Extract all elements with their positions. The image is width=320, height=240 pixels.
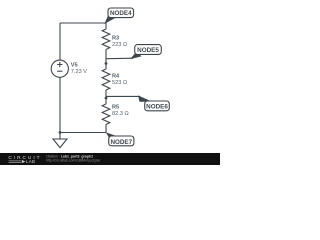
wire left rail lower: [59, 77, 61, 132]
svg-text:7.23 V: 7.23 V: [71, 69, 87, 75]
svg-text:523 Ω: 523 Ω: [112, 80, 127, 86]
CircuitLab logo: [8, 155, 41, 164]
junction node between R3 and R4: [105, 62, 108, 65]
resistor R3: [102, 29, 110, 50]
ground: [53, 133, 67, 148]
wire left rail upper: [59, 23, 61, 60]
svg-text:NODE6: NODE6: [146, 104, 168, 111]
voltage source V5: [51, 60, 68, 77]
node flag NODE7: [106, 132, 134, 146]
svg-text:223 Ω: 223 Ω: [112, 42, 127, 48]
svg-text:82.3 Ω: 82.3 Ω: [112, 111, 129, 117]
svg-text:R5: R5: [112, 105, 119, 111]
node flag NODE5: [106, 45, 161, 60]
svg-text:R3: R3: [112, 36, 119, 42]
wire resistor column: [105, 23, 107, 29]
wire top rail: [60, 22, 106, 24]
svg-text:http://circuitlab.com/c/88t4mp: http://circuitlab.com/c/88t4mpy2g3er: [46, 158, 101, 162]
junction node at source minus: [59, 131, 62, 134]
resistor R4: [102, 69, 110, 90]
svg-text:V5: V5: [71, 63, 78, 69]
svg-text:R4: R4: [112, 74, 120, 80]
citation text: [46, 154, 101, 162]
svg-text:LAB: LAB: [26, 159, 35, 164]
resistor R5: [102, 104, 110, 125]
svg-text:NODE4: NODE4: [110, 10, 132, 17]
node flag NODE6: [106, 95, 169, 110]
junction node between R4 and R5: [105, 97, 108, 100]
svg-text:NODE5: NODE5: [137, 47, 159, 54]
node flag NODE4: [104, 8, 133, 24]
watermark bar: [0, 153, 220, 165]
wire bottom rail: [60, 132, 106, 134]
svg-text:NODE7: NODE7: [110, 139, 132, 146]
